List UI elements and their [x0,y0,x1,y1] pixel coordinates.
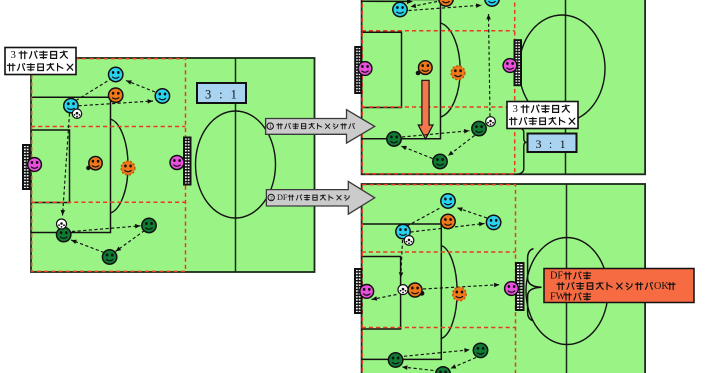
ball 2 p3 [398,285,408,295]
player green C2 p3 [436,367,451,373]
ball dot orange mid p2 [416,71,421,76]
keeper 1 p3 [360,285,374,299]
red dashed zone 3 [362,185,515,373]
penalty arc 3 [441,246,457,339]
pass greenB-greenC p1 [114,231,144,254]
halfway line 1 [235,58,237,272]
keeper 2 p1 [170,156,184,170]
svg-text:2: 2 [270,196,273,202]
goal left pitch3 [355,269,362,313]
penalty area 1 [31,97,111,232]
player cyan B2 p3 [486,215,500,229]
svg-text:3 : 1: 3 : 1 [536,137,568,151]
keeper 2 p2 [503,59,517,73]
player orange A2 p3 [441,214,455,228]
player orange mid2 p1 [121,161,135,175]
player green A p2 [387,132,401,146]
brace for score box (pitch2) [516,129,526,175]
player green A p1 [57,227,71,241]
penalty arc 1 [111,119,129,213]
center circle 2 [519,15,605,122]
gray block arrow 2 (DF wins ball) [266,181,374,214]
gray block arrow 1 (side change) [266,110,375,143]
red dashed divider 2 2 [362,106,515,108]
player green A2 p3 [388,353,402,367]
label box: 3 passes side change (pitch2) [507,102,578,129]
pass greenC-greenA p1 [70,238,104,253]
pass cyanC2-cyanA2 p3 [407,208,441,227]
label text line1 p1 [11,49,68,61]
red dashed zone 1 [32,59,186,272]
pass greenA2-greenB2 p3 [404,348,470,357]
pass orangeB2-keeper2 p3 [423,282,500,289]
score box 3:1 (pitch1) [197,83,246,103]
red dashed divider 1 3 [362,251,516,253]
player orange B p2 [451,66,465,80]
pass cyanB-cyanA p1 [76,80,110,101]
goal mid pitch1 [184,138,191,185]
pass ball2-keeper1 p3 [371,295,396,302]
pass cyanC-cyanA p1 [125,78,155,92]
orange down arrow pitch2 [418,80,433,139]
player orange B2 p3 [408,283,422,297]
player green B p2 [472,121,486,135]
label text line1 p2 [513,103,570,115]
ball 1 p1 [72,109,81,118]
player cyan E p2 [485,0,499,6]
red dashed zone 2 [362,0,515,174]
red dashed divider 2 1 [31,201,186,203]
pass cyanB-ball2 p1 [60,114,69,216]
svg-text:OK: OK [654,281,669,292]
penalty area 2 [362,0,441,139]
svg-text:1: 1 [269,124,272,130]
svg-text:FW: FW [550,292,566,303]
pass greenC-greenA p2 [400,144,432,159]
pass orangeE-cyanD p2 [410,2,437,10]
keeper 2 p3 [505,282,519,296]
halfway line 2 [565,0,567,174]
pass cyanC2-ball2 p3 [399,240,404,278]
player green B2 p3 [473,343,487,357]
pass cyanD-cyanE p2 [409,3,482,11]
goal area 1 [31,130,70,203]
score box 3:1 (pitch2) [528,134,577,153]
keeper 1 p2 [358,62,372,76]
player orange mid1 p1 [89,157,102,170]
player cyan B p1 [64,99,78,113]
svg-text:DF: DF [550,271,563,282]
svg-text:3: 3 [513,103,518,115]
pass greenC2-greenA2 p3 [402,365,439,371]
goal mid pitch3 [516,263,524,310]
pass greenA-greenB p1 [72,224,141,232]
ball dot orange mid p1 [86,166,90,170]
arrow1 caption [267,123,354,130]
orange note line2 [557,281,675,292]
pass greenA-greenB p2 [402,128,470,137]
halfway line 3 [566,184,568,373]
field pitch 2 [362,0,645,174]
center circle 3 [526,238,608,345]
pass cyanC2-cyanB2 p3 [411,221,485,232]
penalty area 3 [362,224,442,359]
label text line2 p1 [7,63,72,70]
field pitch 3 [362,184,645,373]
player orange A p1 [109,88,123,102]
player cyan C p1 [155,89,169,103]
red dashed divider 2 3 [362,327,516,329]
pass greenB2-greenC2 p3 [450,358,476,371]
pass cyanB2-cyanA2 p3 [456,206,487,218]
pass greenB-greenC p2 [447,136,475,158]
svg-text:DF: DF [277,193,288,202]
ball 1 p3 [404,236,414,246]
player orange mid p2 [419,61,433,75]
goal left pitch2 [355,47,361,93]
pass cyanB-cyanC p1 [79,99,154,106]
goal area 3 [362,257,401,330]
label text line2 p2 [509,117,574,124]
orange note line1 [550,271,591,282]
player cyan C2 p3 [396,224,410,238]
label box: 3 passes side change (pitch1) [5,48,76,75]
penalty arc 2 [441,23,461,117]
keeper 1 p1 [28,158,42,172]
player green B p1 [142,218,156,232]
orange note box (pitch3) [544,269,694,303]
svg-text:3: 3 [11,49,16,61]
brace for orange note (pitch3) [528,249,542,321]
player orange C2 p3 [453,287,467,301]
goal area 2 [362,32,402,107]
pass ball-cyanE p2 [486,14,491,117]
player cyan D p2 [393,2,407,16]
ball p2 [486,117,496,127]
orange note line3 [550,292,591,303]
goal mid pitch2 [515,40,522,85]
solid arrow line top pitch2 [361,0,413,4]
ball 2 p1 [57,219,67,229]
player green C p1 [102,250,116,264]
player green C p2 [433,154,447,168]
center circle 1 [196,111,276,218]
svg-text:3 : 1: 3 : 1 [205,88,239,102]
field pitch 1 [31,58,315,272]
arrow2 caption [268,193,349,202]
red dashed divider 1 1 [31,126,186,128]
player cyan A2 p3 [441,194,455,208]
player orange E p2 [439,0,453,6]
red dashed divider 1 2 [362,30,515,32]
player cyan A p1 [109,67,123,81]
ball dot orange B2 p3 [420,291,425,296]
goal left pitch1 [23,145,30,189]
